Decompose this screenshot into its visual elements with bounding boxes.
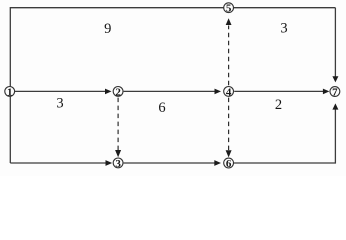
arrowhead into node 3 from left — [106, 160, 113, 166]
wire edge 1-2 (middle horizontal) — [15, 90, 106, 92]
node 2 — [113, 86, 123, 98]
wire edge 1-5 (left vertical + top horizontal to node 5) — [10, 8, 335, 163]
dashed dummy edge 4-6 — [228, 98, 230, 151]
arrowhead into node 7 from top — [332, 76, 338, 82]
wire edge 5-7 (right vertical down from top corner) — [334, 8, 336, 77]
svg-text:1: 1 — [7, 86, 13, 98]
arrowhead into node 4 — [215, 89, 222, 95]
arrowhead into node 6 from above — [226, 150, 232, 157]
svg-text:3: 3 — [115, 158, 121, 170]
node 3 — [113, 158, 123, 170]
wire edge 4-7 (middle horizontal) — [234, 90, 323, 92]
svg-text:6: 6 — [226, 158, 232, 170]
arrowhead into node 7 — [323, 89, 330, 95]
wire edge 2-4 (middle horizontal) — [124, 90, 215, 92]
svg-text:4: 4 — [226, 86, 232, 98]
arrowhead into node 5 from below — [226, 18, 232, 25]
node 7 — [330, 86, 340, 98]
node 6 — [224, 158, 234, 170]
arrowhead into node 7 from bottom — [332, 103, 338, 109]
dashed dummy edge 2-3 — [117, 98, 119, 151]
arrowhead into node 6 from left — [214, 160, 221, 166]
svg-text:5: 5 — [226, 3, 232, 15]
wire edge 6-7 (bottom right + right vertical up) — [234, 110, 335, 164]
node 5 — [224, 3, 234, 15]
svg-text:3: 3 — [280, 21, 287, 37]
svg-text:3: 3 — [56, 96, 63, 112]
svg-text:7: 7 — [332, 86, 338, 98]
wire edge 3-6 (bottom horizontal) — [124, 162, 215, 164]
svg-text:6: 6 — [158, 100, 165, 116]
svg-text:2: 2 — [275, 97, 282, 113]
wire edge 1-3 (bottom horizontal) — [10, 162, 106, 164]
node 1 — [5, 86, 15, 98]
svg-text:2: 2 — [115, 86, 121, 98]
arrowhead into node 2 — [105, 89, 112, 95]
svg-text:9: 9 — [104, 21, 111, 37]
arrowhead into node 3 from above — [115, 150, 121, 157]
node 4 — [224, 86, 234, 98]
dashed dummy edge 4-5 — [228, 26, 230, 86]
